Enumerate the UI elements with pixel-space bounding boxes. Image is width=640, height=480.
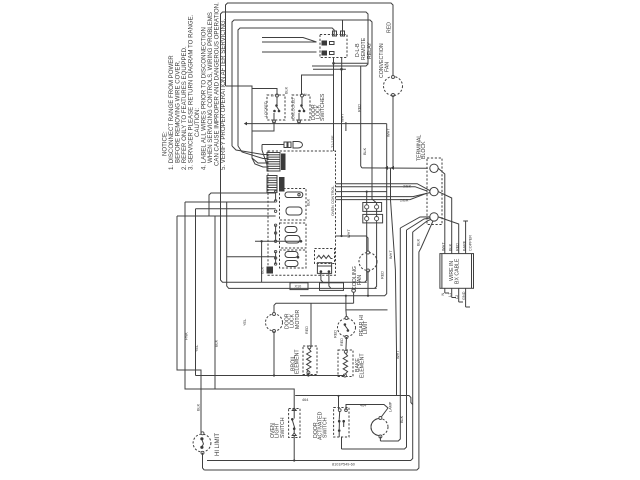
svg-text:HI LIMIT: HI LIMIT [215, 433, 221, 456]
wire RED drop [361, 66, 362, 168]
bx bottom stubs [445, 288, 470, 307]
connector stub at box bottom [267, 267, 274, 274]
remote relay left pin wires [262, 38, 317, 53]
relay group 1 contact b [286, 207, 302, 215]
relay group 1 pins [274, 190, 276, 212]
label BROIL ELEMENT [290, 349, 300, 374]
oven control dashed box [268, 151, 336, 275]
svg-text:BLK: BLK [261, 266, 265, 274]
remote relay pins top [333, 31, 345, 36]
door activated switch [334, 408, 349, 438]
svg-text:COPPER: COPPER [469, 235, 473, 251]
svg-text:BARE: BARE [463, 240, 467, 251]
wire top run 1 (to convection fan) [226, 3, 394, 86]
svg-text:BX CABLE: BX CABLE [455, 258, 461, 284]
svg-text:FAN: FAN [385, 62, 391, 72]
label DOOR ACTIVATED SWITCH [313, 411, 329, 440]
wire bus y208.7 [196, 208, 276, 210]
bake element [338, 350, 353, 377]
svg-text:RED: RED [305, 326, 309, 334]
rear hi limit [338, 317, 356, 339]
relay group 2 contact a [285, 227, 297, 233]
svg-text:WHT: WHT [347, 229, 351, 238]
connector A (hatched) [267, 153, 286, 172]
wire top rail bottom section [295, 396, 413, 405]
bus wire 2 [342, 230, 407, 449]
svg-text:RELAY: RELAY [367, 42, 373, 59]
fuse drop wires [365, 192, 377, 289]
ring terminal [352, 289, 356, 304]
bus wire 1 [382, 396, 400, 442]
fuse link 2 [363, 214, 383, 223]
svg-text:BLK: BLK [215, 339, 219, 347]
label REAR HI LIMIT [359, 315, 369, 336]
wire top run 3 [232, 20, 377, 205]
labels bx bottom [441, 291, 466, 300]
bx red wire [438, 217, 459, 254]
svg-text:GND: GND [462, 291, 466, 300]
svg-text:T1/1SE: T1/1SE [331, 135, 335, 148]
svg-text:YEL: YEL [195, 345, 199, 352]
svg-text:WHT: WHT [387, 128, 391, 137]
wire top run 2 (remote relay loop) [221, 12, 369, 193]
wire top run 4 [238, 28, 334, 146]
svg-text:WHT: WHT [389, 250, 393, 259]
svg-text:SWITCH: SWITCH [323, 417, 329, 438]
svg-text:UNLOCKED: UNLOCKED [292, 98, 296, 119]
relay group 3 contact b [285, 261, 298, 267]
wire unlocked switch top [302, 75, 334, 95]
svg-text:BLK: BLK [307, 198, 311, 206]
bx bare copper wire [463, 221, 468, 254]
bx blk wire [438, 192, 452, 254]
relay group 2 contact b [285, 236, 302, 244]
cooling fan motor [359, 251, 377, 296]
label OVEN CONTROL T1/1SE [331, 135, 335, 216]
svg-text:BLK: BLK [449, 243, 453, 251]
relay group 2 dashed box [280, 223, 307, 248]
wire oven light bottom [293, 436, 295, 461]
wire pnk run [185, 202, 294, 411]
wire blk vertical (left of tblock) [345, 122, 347, 131]
label D-L-B REMOTE RELAY [355, 37, 373, 60]
left rail at switches [251, 86, 253, 137]
svg-text:RED: RED [334, 330, 338, 338]
D-L-B remote relay box [320, 35, 347, 58]
svg-text:8101P549-60: 8101P549-60 [332, 463, 355, 467]
relay group 3 pins [274, 250, 276, 265]
wire bus y193 [209, 193, 276, 216]
wire rect loop b [320, 283, 344, 291]
wire lamp bottom [380, 437, 382, 442]
svg-text:ELEMENT: ELEMENT [360, 353, 366, 378]
svg-text:464: 464 [302, 398, 308, 402]
svg-text:SWITCH: SWITCH [280, 417, 286, 438]
relay group 1 dashed box [280, 189, 307, 221]
svg-text:BLK: BLK [285, 86, 289, 94]
svg-text:WHT: WHT [341, 113, 345, 122]
svg-text:WHT: WHT [442, 242, 446, 251]
wire relay to oven control (WHT) [341, 69, 343, 236]
label CONVECTION FAN [379, 43, 391, 78]
svg-text:RED: RED [340, 338, 344, 346]
wire blk run 2 [214, 216, 216, 389]
svg-text:C: C [271, 94, 275, 97]
labels bx top [442, 235, 473, 251]
junction dots [273, 191, 369, 462]
svg-text:PNK: PNK [185, 332, 189, 340]
wire mid bus y282 [221, 193, 367, 282]
svg-text:OVEN CONTROL: OVEN CONTROL [331, 186, 335, 216]
svg-text:BLK: BLK [197, 403, 201, 411]
svg-text:L1: L1 [448, 293, 452, 297]
svg-text:L2: L2 [455, 295, 459, 299]
wires into connector A [232, 137, 267, 167]
label OVEN LIGHT SWITCH [270, 417, 286, 438]
wire to locked switch top [226, 86, 278, 96]
wire rear hi limit bus [346, 296, 388, 318]
wire motor top bus [274, 303, 354, 313]
pin link wires [275, 192, 277, 201]
bus wire 3 [207, 232, 413, 461]
svg-text:BLK: BLK [363, 147, 367, 155]
svg-text:BLOCK: BLOCK [421, 141, 427, 159]
wire motor bottom [273, 331, 275, 376]
terminal 2 [430, 187, 438, 195]
wire fan feed [336, 236, 369, 253]
coil pin wires [321, 272, 331, 289]
svg-text:BLK: BLK [400, 415, 404, 423]
svg-text:RED: RED [381, 271, 385, 279]
remote relay contacts [322, 41, 335, 56]
wire in bx cable box [440, 254, 474, 289]
wire locked switch bottom [252, 122, 274, 132]
wire bus y202 [185, 201, 276, 203]
wire mid bus y288 [227, 202, 377, 288]
svg-text:YEL: YEL [243, 319, 247, 326]
wire lamp top path [346, 405, 388, 418]
wire pair to terminal 2 lower [336, 193, 430, 200]
wire bus y216 [177, 215, 276, 217]
wire elements bottom bus [196, 373, 345, 376]
door lock motor [266, 313, 283, 333]
plug connector [262, 142, 303, 166]
relay group 1 contact a [285, 192, 303, 198]
broil element [303, 346, 317, 375]
relay group 3 dashed box [280, 250, 307, 268]
notice text block [162, 2, 228, 170]
oven control coil [315, 249, 335, 274]
relay group 3 contact a [285, 252, 299, 259]
fuse link 1 [363, 203, 382, 212]
wire rect loop a [290, 283, 308, 290]
label TERMINAL BLOCK [417, 135, 428, 161]
svg-text:C: C [304, 93, 308, 96]
relay group 2 pins [274, 224, 276, 242]
wire pair to terminal 2 upper [336, 184, 430, 191]
door lock switch 1 (LOCKED) [267, 94, 285, 123]
wire coil return drop [261, 241, 263, 282]
label DOOR LOCK MOTOR [284, 310, 301, 329]
oven light switch [289, 408, 300, 438]
svg-text:WHT: WHT [396, 350, 400, 359]
label COOLING FAN [352, 266, 363, 290]
svg-text:FAN: FAN [357, 275, 363, 285]
wire T1 feed [362, 166, 428, 170]
svg-text:RED: RED [358, 104, 362, 112]
lamp [371, 417, 388, 439]
wire blk run (left) [177, 216, 201, 433]
bus wire 4 (see blk t3) [399, 228, 401, 396]
hi limit [193, 432, 211, 455]
wire yel run [195, 209, 197, 376]
wires terminal 3 converge [400, 217, 430, 232]
terminal 1 [430, 164, 438, 172]
wire unlocked switch bottom (WHT) [299, 122, 387, 124]
wire whitedrop junction [391, 168, 397, 396]
svg-text:RED: RED [387, 22, 393, 33]
svg-text:LAMP: LAMP [389, 401, 393, 412]
svg-text:N: N [441, 293, 445, 296]
wire rhl to bake [345, 337, 348, 352]
tiny wire codes [400, 185, 412, 203]
bx wht wire [438, 168, 445, 253]
wire hi limit bottom [203, 453, 205, 470]
label BAKE ELEMENT [355, 353, 366, 378]
wire oven control to fuse drop [336, 191, 387, 193]
connector B (hatched) [267, 176, 285, 193]
wire door sw t1 drop [338, 395, 340, 410]
svg-text:2/BR: 2/BR [400, 199, 409, 203]
wire blk from terminal 3 [204, 221, 433, 470]
wire bus y241 [255, 240, 301, 242]
svg-text:BLK: BLK [417, 238, 421, 246]
wire relay pin2 drop [342, 20, 344, 36]
svg-text:3. SERVICER PLEASE RETURN DIAG: 3. SERVICER PLEASE RETURN DIAGRAM TO RAN… [188, 14, 195, 170]
label DOOR LOCK SWITCHES [311, 93, 326, 121]
svg-text:2/BK: 2/BK [403, 185, 412, 189]
convection fan motor [384, 76, 403, 168]
wires below remote relay [313, 58, 368, 152]
label WIRE IN BX CABLE [449, 258, 461, 284]
wire broil feed [310, 303, 312, 347]
svg-text:464: 464 [360, 404, 366, 408]
svg-text:LIMIT: LIMIT [363, 320, 369, 334]
svg-text:SWITCHES: SWITCHES [320, 93, 326, 121]
wire bus y256 [227, 256, 276, 258]
terminal 3 [430, 213, 438, 221]
door lock switch 2 (UNLOCKED) [292, 94, 310, 123]
svg-text:X10: X10 [295, 284, 302, 288]
svg-text:RED: RED [456, 243, 460, 251]
svg-text:ELEMENT: ELEMENT [295, 349, 301, 374]
terminal block dashed box [427, 158, 442, 225]
svg-text:MOTOR: MOTOR [295, 310, 301, 329]
wire door sw bottom [341, 437, 343, 449]
svg-text:LOCKED: LOCKED [264, 101, 268, 117]
